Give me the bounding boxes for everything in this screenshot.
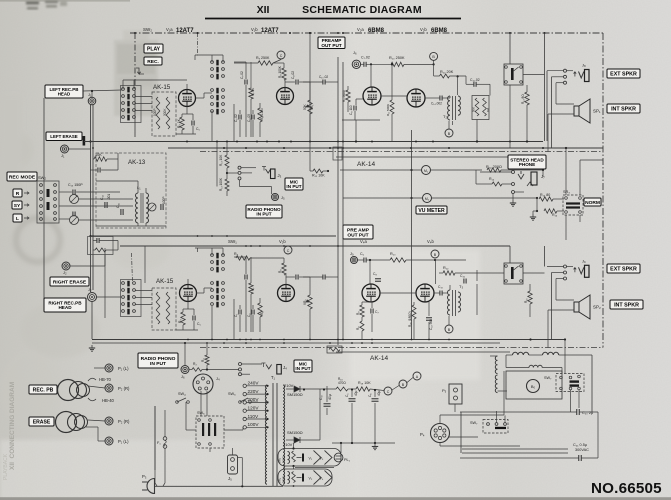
wire: power wiring [154, 406, 156, 470]
svg-text:.001: .001 [107, 194, 111, 200]
wire: T2 wiring [425, 97, 440, 99]
wire: 6BM8 grid feed [361, 63, 364, 65]
wire: play/rec switch dash line [134, 33, 136, 95]
wire: V1b plate coupling [284, 80, 286, 88]
label box L [13, 214, 22, 222]
svg-text:VR₂: VR₂ [303, 299, 307, 305]
svg-text:AK-13: AK-13 [128, 159, 146, 166]
wire: lower phono wiring [189, 369, 192, 371]
wire: sw5 to J5 [209, 448, 211, 452]
svg-text:REC.: REC. [147, 59, 159, 65]
svg-text:R₁₄: R₁₄ [489, 177, 495, 181]
svg-text:R₈: R₈ [234, 252, 239, 256]
label box INT SPKR (top) [607, 104, 640, 113]
svg-text:T₂: T₂ [443, 114, 447, 119]
wire: P4 fanout [439, 415, 441, 424]
svg-text:V₂a: V₂a [357, 27, 364, 32]
relay contact block lower [504, 263, 523, 284]
svg-text:R₁₀ 250K: R₁₀ 250K [389, 56, 405, 60]
svg-text:R₁₃ 100K: R₁₃ 100K [219, 177, 223, 191]
resistor R6' [258, 303, 262, 317]
capacitor C8 .02 coupling [295, 80, 297, 85]
connector ERASE multi-pin [56, 412, 77, 433]
svg-text:SW₁: SW₁ [228, 239, 237, 244]
wire: long bus y141 [84, 141, 543, 143]
svg-text:T₁: T₁ [271, 375, 276, 380]
filter choke L3 [543, 352, 559, 355]
wire: M1 row [340, 169, 422, 171]
svg-text:J₄: J₄ [283, 365, 287, 370]
mic jack J4 lower [262, 363, 266, 367]
svg-text:INT SPKR: INT SPKR [614, 303, 639, 309]
svg-text:C₉ 110: C₉ 110 [349, 105, 353, 115]
svg-text:200V: 200V [248, 397, 260, 402]
svg-text:SY: SY [14, 203, 21, 209]
svg-text:J₄: J₄ [216, 376, 220, 381]
label box RADIO PHONO IN PUT (upper) [246, 205, 282, 218]
svg-text:210V: 210V [283, 442, 293, 447]
svg-text:VR₁: VR₁ [310, 104, 314, 110]
resistor R3' 1K [181, 312, 185, 325]
switch SW1a grid contacts upper [211, 61, 214, 64]
svg-text:C₅: C₅ [196, 127, 200, 131]
capacitor C20 2u [576, 409, 578, 415]
svg-text:T₃: T₃ [459, 284, 463, 289]
capacitor C1' [238, 310, 240, 315]
svg-text:L: L [16, 216, 19, 222]
jack J9 sleeve [585, 265, 590, 277]
svg-text:R₁₅ 10K: R₁₅ 10K [312, 174, 325, 178]
jack J8 sleeve [585, 70, 590, 82]
motor supply coil [495, 356, 497, 374]
filter choke L4 [529, 365, 542, 367]
wire: right boundary bus [602, 33, 604, 348]
mic jack J3 [262, 167, 266, 171]
svg-text:P₁ (L): P₁ (L) [118, 366, 129, 371]
wire: head to switch [83, 90, 122, 91]
wire: headphone wiring [480, 171, 512, 173]
wire: SW3' to AK-15 rows [136, 290, 153, 292]
svg-text:V₄: V₄ [320, 476, 324, 480]
label box MIC IN PUT (lower) [294, 360, 312, 372]
svg-text:V₁a: V₁a [166, 27, 173, 32]
jack J6 preamp out [352, 60, 360, 68]
wire: mic wiring [227, 172, 238, 174]
wire: osc tank wiring [59, 191, 72, 193]
capacitor C1 .02 [238, 115, 240, 120]
svg-text:HEAD: HEAD [58, 305, 72, 310]
resistor R7' [249, 283, 253, 294]
wire: pilot feed [340, 443, 342, 453]
svg-text:R₇: R₇ [251, 288, 255, 291]
fuse F1 [163, 437, 167, 441]
junction dots bus y141 [186, 141, 188, 143]
label box SY [12, 201, 22, 209]
svg-text:R₃: R₃ [178, 319, 182, 323]
capacitor C10 .02 to output pair [322, 80, 324, 85]
tube V4a pentode [362, 284, 380, 302]
label box REC. [144, 57, 162, 65]
connector J5 block [228, 455, 238, 474]
svg-text:R₁₀: R₁₀ [390, 252, 396, 256]
capacitor C4' [251, 310, 253, 315]
svg-text:100Ω: 100Ω [282, 476, 286, 483]
svg-text:J₂: J₂ [63, 270, 67, 275]
wire: HT wiring [286, 388, 294, 390]
label box ERASE [29, 417, 54, 426]
feedback network box [472, 96, 489, 120]
wire: 100V row to SW5 [224, 429, 243, 431]
svg-text:J₂: J₂ [88, 287, 92, 292]
wire: V3a cathode [187, 302, 189, 310]
wire: B+ feed to chokes [460, 342, 505, 344]
svg-text:SW₇: SW₇ [470, 421, 478, 425]
resistor R10 8ohm lower [528, 291, 532, 304]
wire: osc net [93, 158, 94, 160]
svg-text:12AT7: 12AT7 [176, 28, 194, 34]
svg-text:R₁₂ 20K: R₁₂ 20K [440, 70, 454, 74]
label box LEFT ERASE [46, 132, 82, 141]
svg-text:C₈: C₈ [373, 272, 377, 276]
resistor R13b 100K vertical [225, 179, 229, 191]
wire: J1 shield pair verticals [90, 105, 92, 292]
radio phono jack J5 [272, 194, 279, 201]
label box PREAMP OUT PUT (top) [318, 37, 345, 49]
capacitor C4 .05 [251, 115, 253, 120]
svg-text:XII CONNECTING DIAGRAM: XII CONNECTING DIAGRAM [9, 382, 16, 470]
svg-text:IN PUT: IN PUT [256, 212, 271, 217]
pilot lamp PL1 [334, 453, 343, 462]
tube V2a pentode [363, 87, 381, 105]
svg-text:R: R [16, 191, 20, 197]
wire: lower long buses [92, 342, 500, 344]
capacitor C9 110 [353, 106, 355, 111]
resistor R8 5600 cathode [346, 90, 350, 102]
wire: interstage net [234, 61, 246, 63]
circled node B upper [430, 52, 438, 60]
tube V1a triode [179, 90, 196, 107]
svg-text:R₂₀ (180Ω): R₂₀ (180Ω) [408, 311, 412, 327]
wire: L1 wiring [96, 180, 138, 182]
wire: J5 to bus [238, 457, 243, 459]
resistor R9' lower [360, 321, 364, 331]
connector REC.PB multi-pin [58, 380, 79, 401]
resistor 10K lower osc [95, 248, 106, 252]
svg-text:J₉: J₉ [582, 258, 586, 263]
heater loop 2 outline [278, 469, 332, 486]
circled trimmer [70, 195, 79, 204]
resistor R16b [544, 209, 557, 213]
svg-text:R₁₆ 80: R₁₆ 80 [540, 193, 550, 197]
wire: bus y157 [336, 156, 510, 158]
svg-text:50K: 50K [303, 103, 307, 110]
circled node C bottom [384, 387, 392, 395]
power transformer T1 secondary [283, 385, 285, 484]
svg-text:C₂₁ 0.5μ: C₂₁ 0.5μ [573, 443, 587, 447]
svg-text:PHONE: PHONE [519, 162, 535, 167]
capacitor lower osc [96, 238, 98, 243]
svg-text:V₄b: V₄b [427, 239, 435, 244]
tube V3a triode [180, 285, 197, 302]
svg-text:SW₂: SW₂ [143, 27, 152, 32]
svg-text:C: C [387, 390, 390, 394]
capacitor C14 osc [104, 202, 106, 208]
speaker SP2 [574, 302, 579, 312]
capacitor C15 osc [120, 209, 122, 215]
svg-text:P₁ (L): P₁ (L) [118, 439, 129, 444]
svg-text:AK-15: AK-15 [156, 278, 174, 285]
wire: dash bus y151 [200, 151, 603, 153]
jack J8 tip arrow [574, 72, 577, 77]
svg-text:OUT PUT: OUT PUT [347, 232, 368, 238]
svg-text:120V: 120V [248, 406, 260, 411]
wire: SW1 actuating dash line [197, 33, 199, 57]
wire: right head wiring [71, 265, 106, 267]
capacitor C8' coupling [295, 275, 297, 280]
label box RIGHT REC.PB HEAD [44, 298, 86, 312]
voltage selector contacts [243, 384, 246, 387]
heater arrow 1 [297, 457, 302, 459]
jack J6' lower preamp out [351, 257, 358, 264]
wire: speaker wiring [544, 33, 546, 141]
svg-text:AK-14: AK-14 [370, 355, 388, 362]
svg-text:R₁₃ 8Ω: R₁₃ 8Ω [521, 94, 525, 104]
meter M2 circle [423, 194, 432, 203]
label box RIGHT ERASE [50, 277, 89, 286]
svg-text:6BM8: 6BM8 [368, 28, 385, 34]
wire: erase drop [104, 248, 106, 318]
svg-text:V₂b: V₂b [420, 27, 427, 32]
jack J1 [88, 97, 96, 105]
relay contact block upper (output muting) [504, 64, 523, 85]
wire: long bus y148 [168, 147, 603, 149]
tube V1b triode [277, 88, 294, 105]
wire: motor wiring [561, 368, 563, 374]
capacitor C5 [191, 121, 193, 126]
wire: recpb cable [88, 383, 105, 385]
wire: V3b coupling [250, 257, 284, 259]
resistor R15 10K [313, 169, 323, 173]
wire: M2 row [343, 197, 423, 199]
wire: V1a cathode network [186, 107, 188, 115]
wire: T3 wiring [434, 292, 440, 294]
wire: SW1' actuating dash line [197, 248, 199, 252]
capacitor C15 .02 feedback [473, 82, 475, 87]
cable loop HB-70 [88, 378, 96, 381]
plug P5 [449, 384, 462, 404]
svg-text:REC. PB: REC. PB [33, 387, 54, 393]
resistor R8' cathode [360, 305, 364, 317]
wire: heater feeds [293, 443, 295, 449]
svg-text:J₈: J₈ [582, 63, 586, 68]
capacitor C5' [192, 316, 194, 321]
svg-text:SW₆: SW₆ [228, 392, 236, 396]
capacitor C5 40u [349, 398, 356, 400]
svg-text:NO.66505: NO.66505 [591, 480, 662, 497]
svg-text:INT SPKR: INT SPKR [611, 107, 636, 113]
svg-text:40μ: 40μ [354, 390, 358, 396]
svg-text:C₁.02: C₁.02 [234, 114, 238, 122]
switch SW3' contact array lower [121, 280, 142, 317]
svg-text:12AT7: 12AT7 [261, 28, 279, 34]
wire: lower long bus to motor [529, 338, 531, 340]
label box EXT SPKR (bottom) [607, 264, 640, 273]
svg-text:SCHEMATIC DIAGRAM: SCHEMATIC DIAGRAM [302, 4, 422, 16]
junction dots bus y148 [223, 147, 225, 149]
svg-text:SR₃: SR₃ [563, 190, 570, 194]
wire: lower interstage [234, 256, 246, 258]
svg-text:V₄a: V₄a [360, 239, 368, 244]
wire: lower grid feed [358, 259, 364, 261]
svg-text:R₇ 3K: R₇ 3K [251, 87, 255, 96]
arrow: play/rec selector [136, 68, 141, 74]
svg-text:HB-70: HB-70 [99, 377, 112, 382]
headphone jack J7 [512, 171, 515, 174]
svg-text:J₆: J₆ [181, 374, 185, 379]
svg-text:PLAYBACK: PLAYBACK [3, 453, 9, 480]
svg-text:C₁₄: C₁₄ [100, 194, 104, 200]
svg-text:OUT PUT: OUT PUT [321, 43, 341, 48]
label box EXT SPKR (top) [607, 69, 640, 78]
wire: B+ row [348, 388, 356, 390]
lower osc block outline [88, 237, 114, 255]
label box REC MODE [7, 172, 37, 181]
speaker jack J8 contacts [564, 69, 567, 72]
svg-text:R₁₃ 10K: R₁₃ 10K [219, 154, 223, 166]
power section frame [462, 448, 568, 450]
svg-text:C₇.02: C₇.02 [361, 56, 370, 60]
svg-text:HB-40: HB-40 [102, 398, 115, 403]
resistor R17 box on bus [327, 346, 342, 353]
svg-text:XII: XII [257, 4, 270, 16]
wire: output to jack [509, 33, 511, 64]
scan edge artifact bottom [0, 497, 671, 500]
svg-text:110V: 110V [248, 414, 259, 419]
svg-text:C₁₇: C₁₇ [319, 394, 323, 400]
oscillator block AK-13 dashed outline [96, 153, 166, 228]
svg-text:M₂: M₂ [425, 197, 430, 201]
switch SW1b' contacts lower ch [211, 282, 214, 285]
pin jack P1(L) upper [105, 364, 113, 372]
cable loop HB-40 [88, 398, 96, 401]
capacitor 100P right of L1 [160, 204, 162, 210]
svg-text:P₅: P₅ [442, 388, 447, 393]
circled node B bottom [399, 380, 407, 388]
capacitor C7' bypass [370, 309, 372, 314]
svg-text:P₃: P₃ [142, 474, 147, 479]
label box REC. PB [29, 385, 57, 394]
svg-text:C₁: C₁ [234, 314, 238, 317]
svg-text:J₆: J₆ [353, 50, 357, 55]
svg-text:J₅: J₅ [228, 476, 232, 481]
transformer T1 core [272, 383, 274, 486]
wire: lower osc net [93, 240, 97, 242]
meter M1 circle [422, 166, 431, 175]
circled node C [277, 51, 285, 59]
svg-text:C₈.02: C₈.02 [291, 71, 295, 79]
wire: B+ feed [234, 62, 258, 64]
resistor R9 100K [282, 68, 286, 80]
label box STEREO HEAD PHONE [508, 155, 546, 169]
svg-text:IN PUT: IN PUT [295, 366, 310, 371]
svg-text:J₃: J₃ [278, 173, 282, 178]
wire: fb net [476, 120, 478, 142]
svg-text:V₂b: V₂b [279, 239, 286, 244]
socket P4 [431, 424, 450, 443]
resistor R9' 100K [282, 263, 286, 275]
wire: C20 row [460, 411, 577, 413]
power socket J4 [193, 374, 213, 394]
circled node B lower mid [431, 250, 439, 258]
resistor R3 lower vert [205, 355, 209, 365]
svg-text:SW₇: SW₇ [544, 376, 552, 380]
svg-text:100P: 100P [162, 197, 166, 204]
capacitor C16 coupling [463, 279, 465, 284]
svg-text:V₃: V₃ [320, 456, 324, 460]
svg-text:300VAC: 300VAC [575, 448, 589, 452]
svg-text:C₇.02: C₇.02 [240, 71, 244, 79]
label box LEFT REC.PB HEAD [45, 85, 83, 98]
svg-text:10K: 10K [95, 153, 102, 157]
svg-text:R₆ 2.2M: R₆ 2.2M [260, 108, 264, 120]
wire: VR1 to bus [309, 114, 311, 142]
svg-text:ERASE: ERASE [33, 419, 51, 425]
capacitor C6 lower [363, 258, 365, 263]
shield junction box [333, 147, 342, 160]
svg-text:SW₂: SW₂ [38, 175, 46, 180]
jack J2 rec/pb [88, 293, 97, 302]
wire: grid wiring [186, 84, 188, 90]
switch SW1b grid contacts lower [211, 89, 214, 92]
pin jack P1(L) lower [105, 437, 113, 445]
svg-text:SM150Ω: SM150Ω [287, 392, 303, 397]
capacitor C17 40u [324, 403, 331, 405]
wire: R15 feed vertical [309, 33, 311, 141]
svg-text:C₅: C₅ [197, 322, 201, 326]
wire: lower grid feed to V4b [434, 259, 436, 261]
svg-text:P₂ (R): P₂ (R) [118, 419, 130, 424]
wire: head box vertical [43, 98, 45, 299]
svg-text:RIGHT ERASE: RIGHT ERASE [53, 279, 87, 285]
svg-text:C: C [287, 249, 290, 253]
svg-text:P₄: P₄ [420, 432, 425, 437]
tube V2b power pentode [407, 89, 425, 107]
wire: V4a cathode [361, 302, 363, 305]
jack J1 erase [61, 145, 69, 153]
svg-text:PL₁: PL₁ [344, 458, 351, 462]
svg-text:J₅: J₅ [281, 195, 285, 200]
label box RADIO PHONO IN PUT (lower) [138, 353, 178, 368]
motor B1 [527, 380, 540, 393]
label box MIC IN PUT (upper) [285, 178, 303, 190]
resistor R11 500K grid leak [390, 100, 394, 114]
svg-text:C₁₀.02: C₁₀.02 [319, 75, 328, 79]
wire: erase head line [69, 148, 91, 150]
svg-text:IN PUT: IN PUT [150, 361, 166, 367]
svg-text:SW₄: SW₄ [178, 392, 186, 396]
mic jack contacts [238, 166, 241, 169]
heater arrow 2 [297, 477, 302, 479]
capacitor C18 560 [426, 317, 432, 319]
wire: plug to bottom bus [155, 485, 284, 487]
svg-text:R₁₂: R₁₂ [443, 266, 449, 270]
svg-text:50K: 50K [472, 107, 476, 112]
svg-text:V₂: V₂ [309, 476, 313, 480]
svg-text:R₁₉ 10K: R₁₉ 10K [358, 381, 371, 385]
svg-text:SM150Ω: SM150Ω [287, 430, 303, 435]
svg-text:B₀: B₀ [531, 384, 536, 389]
svg-text:J₉: J₉ [350, 251, 354, 256]
